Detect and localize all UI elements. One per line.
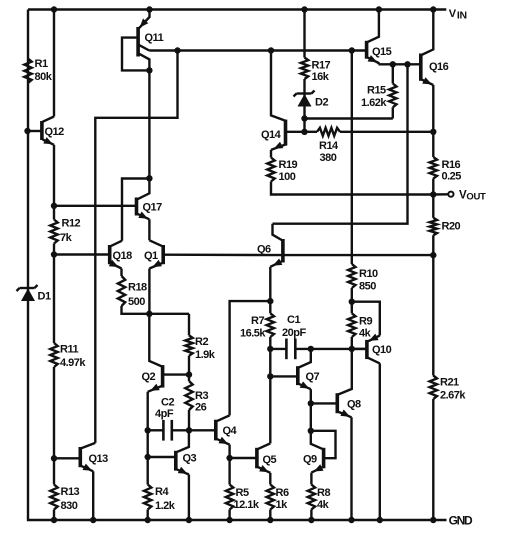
junction R12 / Q18 base / R11 [51, 251, 57, 257]
wire VIN rail [28, 8, 446, 10]
wire Q2 emitter down [146, 392, 148, 431]
svg-text:R1: R1 [35, 58, 48, 70]
wire Q7 base [270, 375, 296, 377]
wire Q12 emitter down [53, 145, 55, 206]
wire Q3 emitter to ground [188, 475, 190, 521]
junction R10 / R9 / Q10 emitter branch [349, 299, 355, 305]
resistor R17 [301, 58, 308, 80]
svg-text:0.25: 0.25 [442, 171, 462, 183]
wire node down to R21 [432, 255, 434, 375]
wire R15 top lead [392, 64, 394, 83]
node VOUT terminal [433, 190, 486, 203]
svg-text:Q6: Q6 [257, 244, 271, 256]
svg-text:Q3: Q3 [183, 453, 197, 465]
svg-text:Q12: Q12 [45, 126, 65, 138]
svg-text:1.2k: 1.2k [155, 500, 176, 512]
wire R7 top lead [269, 301, 271, 313]
resistor R19 [267, 158, 274, 182]
wire R14 lead right [340, 131, 433, 133]
svg-text:1.62k: 1.62k [361, 97, 387, 109]
wire R12 node down to R11 [53, 255, 55, 344]
wire Q2 emitter node down to Q3 base [146, 430, 148, 457]
wire R9 top lead [351, 302, 353, 314]
resistor R8 [308, 485, 315, 510]
junction Q8 collector / C1 line [349, 346, 355, 352]
wire D2 node to R15 bottom [305, 117, 393, 119]
label Q14 [261, 129, 282, 141]
svg-text:R12: R12 [62, 218, 81, 230]
junction Q11 collector line / R10 branch [349, 47, 355, 53]
junction R18 / Q1 emitter / R2 [146, 311, 152, 317]
svg-text:R7: R7 [251, 315, 264, 327]
label R10 [359, 268, 378, 293]
wire R10 column top [351, 51, 353, 265]
label D2 [315, 97, 328, 109]
wire Q17 base line [54, 205, 135, 207]
junction R4 ground [145, 517, 151, 523]
resistor R15 [389, 84, 396, 108]
transistor Q12 [42, 117, 54, 145]
diode D1 (zener) [17, 285, 38, 301]
wire Q10 emitter branch [352, 302, 380, 336]
junction Q16 collector rail [430, 6, 436, 12]
wire Q13 collector up to Q15 base line [95, 51, 177, 443]
junction D2 anode / R15 line [301, 115, 307, 121]
wire Q2 base [164, 373, 189, 375]
label R5 [234, 487, 260, 511]
svg-text:R18: R18 [128, 282, 147, 294]
resistor R20 [430, 218, 437, 236]
svg-text:Q13: Q13 [89, 453, 109, 465]
wire Q3 base [148, 456, 175, 458]
wire R19 bottom to VOUT line [271, 182, 433, 195]
label C1 [282, 314, 306, 339]
svg-text:20pF: 20pF [282, 327, 306, 339]
junction R20 / base line [430, 252, 436, 258]
svg-text:4.97k: 4.97k [60, 357, 86, 369]
transistor Q18 [109, 241, 122, 269]
wire Q18 emitter to R18 [120, 269, 122, 277]
svg-text:12.1k: 12.1k [234, 499, 260, 511]
junction R21 ground [430, 517, 436, 523]
svg-text:80k: 80k [35, 71, 53, 83]
svg-text:4k: 4k [359, 328, 372, 340]
junction R7 bottom / C1 left [267, 346, 273, 352]
node GND label [449, 513, 473, 527]
junction Q7 emitter / Q8 base [308, 400, 314, 406]
transistor Q9 [311, 431, 324, 473]
label Q18 [113, 250, 133, 262]
transistor Q13 [80, 443, 95, 471]
junction Q9 collector-base tie [308, 428, 314, 434]
svg-text:R13: R13 [61, 486, 80, 498]
junction Q11 emitter rail [146, 6, 152, 12]
transistor Q4 [216, 415, 230, 444]
transistor Q6 [270, 224, 283, 267]
wire R10 bottom lead [351, 288, 353, 302]
junction Q14 base / R14 node [301, 129, 307, 135]
label Q11 [145, 32, 164, 44]
junction Q13 collector / Q11 collector line [174, 47, 180, 53]
transistor Q3 [176, 430, 189, 474]
node VIN label [449, 8, 467, 22]
resistor R11 [50, 343, 57, 367]
wire R21 bottom to ground [432, 399, 434, 520]
label Q13 [89, 453, 109, 465]
label Q8 [347, 399, 361, 411]
wire Q18 base line [54, 253, 108, 255]
wire Q14 base [287, 131, 305, 133]
wire Q15 emitter line to Q16 base [379, 63, 420, 65]
label R2 [195, 336, 216, 361]
transistor Q1 [149, 240, 163, 268]
wire Q12 collector to VIN [53, 10, 55, 117]
label R1 [35, 58, 53, 83]
svg-text:Q5: Q5 [263, 454, 277, 466]
svg-text:R9: R9 [359, 316, 372, 328]
label R4 [155, 486, 176, 512]
label R16 [442, 159, 462, 183]
wire R3 between nodes [188, 375, 190, 381]
svg-text:380: 380 [320, 152, 337, 164]
svg-text:R6: R6 [276, 487, 289, 499]
label Q10 [372, 344, 392, 356]
label Q4 [223, 425, 238, 437]
junction R6 ground [267, 517, 273, 523]
resistor R1 [24, 59, 31, 84]
svg-text:850: 850 [359, 281, 376, 293]
capacitor C1 [270, 339, 366, 360]
wire R5 bottom lead [228, 510, 230, 521]
transistor Q14 [271, 51, 286, 150]
svg-text:1.9k: 1.9k [195, 349, 216, 361]
label Q17 [143, 202, 163, 214]
wire R2 top lead [188, 314, 190, 336]
label R19 [279, 159, 298, 183]
junction R13 ground [51, 517, 57, 523]
junction Q13 base tap [51, 455, 57, 461]
resistor R14 [317, 128, 340, 136]
svg-text:R3: R3 [195, 390, 208, 402]
label Q12 [45, 126, 65, 138]
svg-text:500: 500 [128, 296, 145, 308]
wire R7 bottom to Q5 collector [269, 337, 271, 443]
junction R7 top / Q4 collector line [267, 298, 273, 304]
svg-text:2.67k: 2.67k [440, 390, 466, 402]
transistor Q11 (dual collector pnp) [138, 10, 149, 71]
svg-text:830: 830 [61, 500, 78, 512]
label R14 [319, 140, 339, 164]
label R15 [361, 85, 387, 110]
junction C2 right / Q3 collector / Q4 base [186, 427, 192, 433]
resistor R2 [185, 335, 192, 355]
label Q1 [144, 250, 158, 262]
svg-text:Q8: Q8 [347, 399, 361, 411]
transistor Q16 [421, 10, 434, 86]
wire Q1 emitter down [148, 269, 150, 314]
label R17 [312, 60, 331, 84]
junction Q14 collector node [268, 47, 274, 53]
wire R12 bottom lead [53, 244, 55, 255]
junction R14 / Q16 emitter line [430, 129, 436, 135]
wire R20 bottom lead [432, 235, 434, 255]
wire Q9 base loop [311, 431, 336, 458]
label Q16 [429, 61, 449, 73]
junction C2 left node [145, 427, 151, 433]
junction Q12 collector rail [51, 6, 57, 12]
wire Q4 base [189, 429, 214, 431]
svg-text:C1: C1 [287, 314, 300, 326]
label R12 [60, 218, 81, 245]
svg-text:R15: R15 [367, 85, 386, 97]
label Q7 [306, 371, 320, 383]
label Q9 [303, 454, 317, 466]
svg-text:C2: C2 [161, 397, 174, 409]
junction Q17 collector node [146, 175, 152, 181]
junction Q8 emitter ground [348, 517, 354, 523]
wire R15 bottom lead [392, 107, 394, 118]
svg-text:Q10: Q10 [372, 344, 392, 356]
label Q5 [263, 454, 277, 466]
label R11 [60, 344, 86, 370]
diode D2 (zener) [294, 91, 315, 107]
transistor Q8 [337, 349, 352, 417]
wire Q3-base node down to R4 [146, 457, 148, 485]
svg-text:Q18: Q18 [113, 250, 133, 262]
junction Q13 emitter ground [90, 517, 96, 523]
svg-text:4pF: 4pF [155, 408, 174, 420]
label C2 [155, 397, 174, 421]
wire Q11 base loop [122, 38, 149, 71]
capacitor C2 [148, 420, 189, 441]
junction Q3 emitter ground [186, 517, 192, 523]
svg-text:Q4: Q4 [223, 425, 238, 437]
svg-text:Q1: Q1 [144, 250, 158, 262]
svg-text:D1: D1 [38, 291, 51, 303]
label R7 [240, 315, 266, 340]
svg-text:7k: 7k [60, 232, 73, 244]
label R18 [128, 282, 147, 309]
wire Q8 emitter to ground [350, 417, 352, 520]
svg-text:R17: R17 [312, 60, 331, 72]
label Q6 [257, 244, 271, 256]
wire left rail + GND rail [28, 10, 447, 521]
wire Q6 base line [284, 254, 433, 256]
wire Q10 collector to ground [379, 363, 381, 520]
wire R14 lead left [305, 131, 318, 133]
junction Q10 collector ground [377, 517, 383, 523]
svg-text:16.5k: 16.5k [240, 328, 266, 340]
wire Q4 emitter down [228, 445, 230, 458]
svg-text:26: 26 [195, 402, 207, 414]
svg-text:GND: GND [449, 513, 473, 527]
transistor Q10 (pnp) [367, 334, 380, 364]
transistor Q7 [298, 349, 311, 389]
resistor R16 [430, 157, 437, 179]
junction C1 right / Q7 collector [308, 346, 314, 352]
svg-text:R10: R10 [359, 268, 378, 280]
wire Q7 emitter down [310, 389, 312, 403]
wire R3 bottom lead [188, 410, 190, 430]
junction Q4 emitter / R5 / Q5 base [226, 455, 232, 461]
label Q2 [142, 371, 156, 383]
svg-text:Q17: Q17 [143, 202, 163, 214]
wire Q14 emitter to R19 [270, 150, 272, 158]
wire Q10 base from C1 line [352, 348, 366, 350]
svg-text:R5: R5 [236, 487, 249, 499]
label R8 [317, 487, 330, 511]
wire Q6 emitter down [269, 267, 271, 301]
svg-text:1k: 1k [276, 499, 289, 511]
resistor R9 [348, 313, 355, 337]
resistor R12 [50, 220, 57, 244]
wire Q11 collector line to Q15 base [149, 49, 365, 51]
junction Q11 base-collector tie [146, 67, 152, 73]
junction R5 ground [226, 517, 232, 523]
wire Q9 emitter to R8 [310, 473, 312, 485]
wire Q4 collector up to R7 node [230, 301, 270, 415]
junction R2 / R3 / Q2 base [186, 371, 192, 377]
wire VOUT to R20 [432, 195, 434, 218]
junction Q12 base left rail [24, 128, 30, 134]
svg-text:Q11: Q11 [145, 32, 164, 44]
junction R8 ground [308, 517, 314, 523]
svg-text:D2: D2 [315, 97, 328, 109]
svg-text:R11: R11 [60, 344, 78, 356]
svg-text:R21: R21 [440, 377, 459, 389]
svg-text:Q9: Q9 [303, 454, 317, 466]
svg-text:IN: IN [457, 9, 467, 21]
svg-text:R16: R16 [442, 159, 461, 171]
wire R16 bottom to VOUT node [432, 179, 434, 195]
transistor Q17 [137, 178, 150, 219]
label R9 [359, 316, 372, 340]
wire R6 bottom lead [269, 510, 271, 521]
wire Q6 collector riser [273, 64, 408, 223]
wire R9 bottom lead [351, 337, 353, 349]
wire R4 bottom lead [146, 510, 148, 521]
wire Q5 base [230, 457, 256, 459]
resistor R13 [50, 485, 57, 510]
junction Q7 base tap [267, 373, 273, 379]
wire node down to R13 [53, 458, 55, 484]
svg-text:Q16: Q16 [429, 61, 449, 73]
svg-text:R20: R20 [442, 221, 461, 233]
svg-text:R4: R4 [155, 486, 169, 498]
wire Q8 base [311, 402, 336, 404]
label R13 [61, 486, 80, 512]
label R20 [442, 221, 461, 233]
wire R8 bottom lead [310, 510, 312, 521]
wire Q13 emitter to ground [92, 471, 94, 520]
junction Q3 base tap [145, 454, 151, 460]
svg-text:V: V [449, 8, 457, 20]
transistor Q5 [257, 443, 270, 472]
svg-text:R2: R2 [195, 336, 208, 348]
junction Q12 emitter / Q17 base / R12 [51, 203, 57, 209]
svg-text:Q15: Q15 [372, 46, 392, 58]
wire Q7 node down to Q9 [310, 403, 312, 430]
transistor Q2 [148, 314, 163, 392]
wire Q5 emitter to R6 [269, 473, 271, 485]
resistor R7 [267, 313, 274, 337]
label R3 [195, 390, 208, 414]
wire Q16 emitter to R16 [432, 85, 434, 157]
wire Q11 second collector down to Q17 [148, 70, 150, 178]
wire Q1 base line to Q6 [165, 253, 282, 256]
resistor R10 [348, 264, 355, 288]
svg-text:R19: R19 [279, 159, 298, 171]
resistor R4 [144, 485, 151, 510]
transistor Q15 [367, 10, 379, 65]
wire Q18 collector up [122, 179, 149, 241]
junction Q6 collector riser top [404, 61, 410, 67]
junction R15 top [390, 61, 396, 67]
resistor R6 [267, 485, 274, 510]
wire R13 bottom lead [53, 510, 55, 521]
wire Q17 emitter down to Q1 collector [148, 219, 150, 240]
svg-text:OUT: OUT [466, 191, 486, 202]
junction VOUT node [430, 191, 436, 197]
wire R2 bottom lead [188, 356, 190, 375]
label R6 [276, 487, 289, 511]
resistor R3 [185, 381, 192, 410]
wire R17 top lead [303, 10, 305, 58]
svg-text:4k: 4k [317, 499, 330, 511]
svg-text:Q7: Q7 [306, 371, 320, 383]
junction Q15 collector rail [376, 6, 382, 12]
label Q3 [183, 453, 197, 465]
wire Q12 base from left rail [27, 130, 41, 132]
resistor R18 [118, 276, 125, 306]
wire node to R5 [228, 458, 230, 485]
svg-text:Q14: Q14 [261, 129, 282, 141]
label R21 [440, 377, 466, 402]
resistor R5 [226, 485, 233, 510]
svg-text:Q2: Q2 [142, 371, 156, 383]
wire R12 top lead [53, 206, 55, 220]
label D1 [38, 291, 51, 303]
svg-text:16k: 16k [312, 71, 330, 83]
wire R17 bottom to D2 [303, 79, 305, 132]
svg-text:100: 100 [279, 171, 296, 183]
wire Q13 base [54, 457, 79, 459]
wire R18 bottom to node [122, 306, 190, 314]
label Q15 [372, 46, 392, 58]
wire R11 bottom to Q13 base node [53, 367, 55, 458]
svg-text:R8: R8 [317, 487, 330, 499]
junction R17 rail [301, 6, 307, 12]
resistor R21 [430, 376, 437, 400]
svg-text:R14: R14 [319, 140, 339, 152]
